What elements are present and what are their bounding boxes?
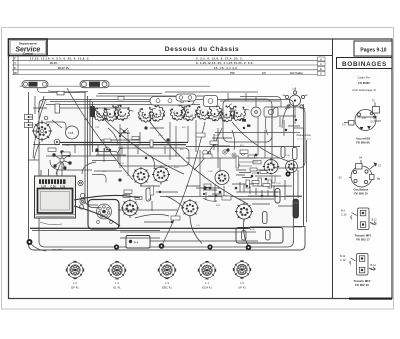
rubber grommet bottom left	[27, 239, 33, 245]
divider between schematic and BOBINAGES column	[332, 39, 334, 299]
svg-text:12,25. 15,10. 6. 2 5: 12,25. 15,10. 6. 2 5. 6. 25, 6. 15,6. 2.	[30, 57, 90, 61]
antenna terminal block upper	[25, 115, 33, 120]
bottom-right heavy page-edge mark	[349, 298, 392, 300]
wire sweep bottom right	[190, 216, 248, 246]
resistor r9	[258, 178, 261, 186]
resistor r6	[240, 150, 248, 153]
table row line 4	[12, 74, 322, 76]
resistor r3	[150, 140, 153, 147]
svg-text:FK 85/66: FK 85/66	[358, 81, 370, 85]
IF can flower cluster 2	[136, 102, 167, 124]
resistor r14	[222, 196, 231, 200]
main title: Dessous du Châssis	[165, 46, 239, 53]
wire harness top inside chassis	[46, 92, 280, 108]
svg-text:Cadre Fer.: Cadre Fer.	[357, 76, 370, 80]
svg-text:B.9: B.9	[341, 209, 345, 213]
resistor r1	[104, 139, 111, 142]
oscillator coil can small	[251, 107, 278, 117]
svg-text:C: C	[14, 66, 16, 70]
transfo MF2	[350, 254, 374, 276]
svg-text:C.14: C.14	[158, 135, 163, 137]
transfo MF1	[351, 208, 375, 230]
tube socket under chassis 5	[215, 171, 229, 185]
top harness wire	[20, 86, 211, 92]
svg-text:L.6: L.6	[293, 87, 297, 91]
wires left-center lower	[120, 186, 258, 241]
wire long horizontal mid2	[46, 156, 280, 158]
resistor r11	[124, 190, 132, 193]
table right letter boxes	[318, 57, 326, 76]
grommet 3	[207, 244, 212, 249]
capacitor dot c7	[118, 178, 121, 181]
wire loop lower-left	[50, 160, 96, 174]
svg-text:R.20: R.20	[250, 229, 255, 231]
tube socket under chassis 8	[286, 161, 298, 173]
capacitor dot c8	[255, 154, 258, 157]
svg-text:Département: Département	[19, 42, 37, 46]
plaque arriere label	[297, 134, 312, 139]
loop2 inner bits	[278, 116, 300, 136]
dial pulley pill right	[80, 81, 109, 88]
wire long horizontal mid1 heavy harness	[33, 142, 300, 146]
tube socket under chassis 7	[263, 158, 279, 174]
caption transfo MF2	[353, 279, 370, 287]
caption transfo MF1	[354, 234, 371, 242]
svg-text:4-5: 4-5	[362, 116, 366, 120]
resistor r2	[132, 137, 139, 140]
svg-text:FK 856 66: FK 856 66	[356, 141, 370, 145]
capacitor dot c5	[236, 163, 239, 166]
wire diagonal sweep 4	[163, 122, 205, 243]
IF can flower cluster 5	[217, 102, 249, 124]
wire right side verticals	[285, 104, 307, 225]
cylinder resistor left-center	[146, 188, 151, 201]
svg-text:C.16: C.16	[341, 213, 347, 217]
svg-text:R.11: R.11	[216, 205, 221, 207]
svg-text:UF 41: UF 41	[238, 286, 246, 290]
svg-text:TC: TC	[372, 99, 376, 103]
svg-text:25,15.: 25,15.	[50, 61, 58, 65]
svg-text:B.14: B.14	[371, 263, 377, 267]
antenna terminal block lower	[25, 123, 33, 128]
grommet 5	[285, 171, 290, 176]
capacitor dot c3	[166, 138, 169, 141]
wave switch spider	[52, 150, 71, 176]
svg-text:C.19: C.19	[340, 258, 346, 262]
svg-text:ECH 41: ECH 41	[202, 286, 212, 290]
mid junction circle	[118, 128, 130, 137]
svg-text:5. 2,5. 8. 12,6. 8. 17: 5. 2,5. 8. 12,6. 8. 17,4. 25. 5.	[196, 57, 243, 61]
chassis interior tint	[39, 100, 294, 248]
small comp under pill	[118, 97, 124, 100]
caption Oscillateur	[354, 188, 370, 196]
wire diagonal sweep 3	[150, 122, 248, 204]
small trimmer square 2	[55, 104, 60, 113]
resistor r4	[196, 133, 205, 137]
svg-text:S2: S2	[339, 176, 343, 180]
coil Oscillateur	[349, 160, 377, 187]
speaker / output transformer plate	[88, 200, 119, 230]
svg-text:Central: Central	[23, 52, 33, 56]
tube socket under chassis 6	[235, 203, 253, 222]
IF can flower cluster 1	[91, 101, 134, 123]
svg-text:B.12: B.12	[340, 254, 346, 258]
resistor r10	[268, 180, 271, 188]
FC8 filter round	[66, 126, 79, 139]
big wire loop right-center 2	[272, 107, 305, 168]
svg-text:EBC 41: EBC 41	[162, 286, 172, 290]
capacitor dot c1	[95, 148, 98, 151]
tube socket under chassis 9	[121, 199, 139, 218]
small cluster left of sk4	[203, 184, 222, 201]
wire loop around sockets mid-left	[118, 148, 189, 166]
title band bottom line	[9, 55, 333, 57]
L6 pin stubs	[283, 88, 308, 109]
svg-text:Ch: Ch	[14, 71, 18, 75]
svg-text:S7: S7	[378, 164, 382, 168]
wire sweeps from tuning cap	[74, 195, 140, 226]
grommet wire tail	[31, 244, 46, 251]
grommet label	[52, 248, 63, 251]
wire bundle vertical left-center	[85, 93, 99, 208]
svg-text:BOBINAGES: BOBINAGES	[342, 61, 387, 68]
caption Accord B2	[356, 137, 371, 145]
svg-text:A: A	[320, 57, 322, 61]
left-middle extra comps	[33, 96, 70, 160]
small trimmer square 1	[176, 94, 196, 101]
grommet 6	[114, 244, 119, 249]
BOBINAGES header box	[337, 58, 393, 69]
chassis inner right vertical rail	[294, 128, 304, 227]
tube socket under chassis 3	[152, 166, 170, 185]
resistor r12	[150, 186, 153, 195]
svg-text:6. 4,25,12,15. 25, 4 1,25: 6. 4,25,12,15. 25, 4 1,25 15.25. 2. 5,2.	[196, 61, 254, 65]
svg-text:C.24: C.24	[285, 155, 290, 157]
wire diagonal sweep 5	[194, 122, 290, 170]
capacitor dot c6	[203, 186, 206, 189]
svg-text:EF 41: EF 41	[71, 286, 79, 290]
main schematic	[20, 81, 312, 251]
IF can flower cluster 4	[195, 101, 226, 123]
small capacitor on harness	[57, 91, 64, 95]
component labels scatter	[66, 119, 290, 231]
svg-text:R.18: R.18	[252, 173, 257, 175]
svg-text:B.11: B.11	[372, 218, 378, 222]
cadre ferrite caption	[352, 76, 376, 93]
chassis outline	[39, 100, 294, 248]
trimmer dots cluster mid	[203, 150, 255, 158]
svg-text:2-1: 2-1	[342, 123, 346, 127]
wire bus lower heavy	[30, 227, 302, 231]
table row line 3	[12, 69, 320, 71]
svg-text:(Voir détail page 4): (Voir détail page 4)	[352, 88, 376, 92]
tube socket under chassis 4	[181, 199, 199, 218]
socket L4 EL41	[108, 262, 125, 290]
svg-text:E: E	[320, 67, 322, 71]
trimmer strip top center	[150, 97, 194, 106]
outer cabinet boundary left	[29, 92, 306, 250]
right column coil details	[339, 76, 382, 288]
socket L5 UF41	[233, 261, 250, 290]
small can top right	[204, 96, 218, 107]
wire loops left-center	[92, 147, 122, 182]
svg-text:Plaque arrière: Plaque arrière	[297, 134, 312, 137]
electrolytic capacitor C30	[275, 189, 280, 204]
outer document frame	[9, 39, 393, 299]
filter choke box	[236, 228, 283, 244]
white cylinder cap right	[263, 212, 268, 224]
L6 rear connector	[285, 87, 304, 109]
table row line 1	[12, 59, 320, 61]
mid horizontal wire upper	[188, 120, 300, 142]
Service Central title box	[9, 39, 48, 56]
wire left column	[29, 117, 67, 160]
svg-text:25. 15. 4,1 4,2.: 25. 15. 4,1 4,2.	[214, 66, 238, 70]
table row line 2	[12, 64, 320, 66]
svg-text:22,17 15,: 22,17 15,	[58, 66, 69, 70]
wire diagonal sweep 2	[92, 106, 184, 174]
resistor r13	[203, 154, 212, 158]
svg-text:C.25: C.25	[276, 183, 281, 185]
electrolytic capacitor C31	[293, 199, 299, 218]
svg-text:FK 856 15: FK 856 15	[354, 192, 368, 196]
dense resistor bank right-middle	[236, 168, 278, 199]
wire diagonal sweep 1	[67, 88, 133, 180]
battery / vibrator pack P4	[126, 236, 150, 249]
svg-text:R.14: R.14	[174, 167, 179, 169]
mid extra wires	[108, 128, 235, 218]
socket L3 EBC41	[158, 261, 175, 289]
gap filler wires mid-left	[33, 99, 232, 162]
svg-text:2x7 Cadre: 2x7 Cadre	[290, 71, 303, 75]
svg-text:750: 750	[230, 71, 235, 75]
dial lamp strip right of tuning cap	[78, 180, 85, 209]
table left index ticks	[14, 56, 19, 75]
resistor r5	[210, 141, 218, 144]
wire bottom long	[120, 197, 302, 233]
wire top right loop	[240, 97, 281, 136]
svg-text:0,5: 0,5	[262, 71, 266, 75]
dial pulley pill left	[22, 81, 48, 88]
resistor r8	[246, 180, 249, 188]
svg-text:Dessous du Châssis: Dessous du Châssis	[165, 46, 239, 53]
socket L2 EF41	[66, 261, 83, 289]
svg-text:Pages 9-10: Pages 9-10	[360, 47, 386, 53]
small dark bits below flower5	[242, 119, 250, 129]
extra wires bottom-right dense zone	[196, 184, 302, 217]
wire vertical risers center	[120, 117, 265, 196]
svg-text:C.17: C.17	[372, 221, 378, 225]
capacitor dot c4	[226, 148, 229, 151]
svg-text:EL 41: EL 41	[113, 286, 121, 290]
small comps above socket 9	[123, 195, 142, 200]
svg-text:C.20: C.20	[371, 267, 377, 271]
tube socket under chassis 2	[132, 167, 150, 186]
component value table rows	[12, 56, 322, 75]
grommet 2	[159, 243, 165, 249]
svg-text:C: C	[320, 62, 322, 66]
terminal strip cluster	[236, 156, 258, 168]
wire right area horizontals	[248, 170, 292, 196]
svg-text:FK 852 17: FK 852 17	[356, 238, 370, 242]
tuning capacitor block	[35, 169, 76, 225]
Pages 9-10 box	[354, 41, 392, 56]
dark stud left of flower row	[90, 106, 96, 117]
svg-text:C.22: C.22	[208, 171, 213, 173]
resistor r7	[253, 161, 261, 164]
IF can flower cluster 3	[169, 102, 201, 124]
socket L1 ECH41	[198, 262, 215, 290]
big wire loop right-center 1	[223, 99, 272, 142]
svg-text:vers cadre: vers cadre	[52, 248, 63, 251]
grommet 4	[246, 245, 252, 251]
svg-text:FK 852 18: FK 852 18	[355, 283, 369, 287]
coil Accord B2	[344, 103, 381, 131]
svg-text:S4: S4	[359, 156, 363, 160]
resistor r15	[171, 216, 180, 220]
wire from L6 down	[282, 104, 295, 128]
svg-text:2C: 2C	[371, 120, 374, 124]
cylinder comps mid-right	[281, 147, 297, 160]
capacitor dot c2	[144, 126, 147, 129]
tube socket under chassis 1	[32, 121, 52, 142]
